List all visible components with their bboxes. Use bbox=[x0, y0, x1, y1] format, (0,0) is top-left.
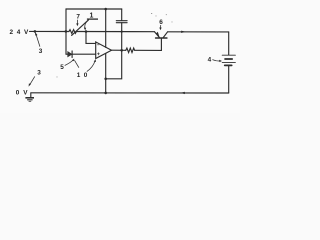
ground symbol hatching bbox=[25, 98, 34, 102]
leader 1 curved bbox=[85, 20, 89, 28]
svg-text:4: 4 bbox=[208, 57, 212, 64]
wire output segment bbox=[112, 49, 126, 51]
wire op-amp top power pin bbox=[105, 9, 107, 47]
arrowhead leader 3 bottom bbox=[29, 84, 32, 87]
leader 3 bottom bbox=[30, 76, 35, 85]
current arrow right wire bbox=[181, 31, 185, 33]
node rail/riser junction bbox=[65, 30, 68, 33]
op-amp plus mark bbox=[97, 53, 99, 55]
leader 1 of 10 to zener bbox=[75, 60, 79, 67]
transistor Q6 emitter diagonal bbox=[155, 32, 160, 38]
leader 6 bbox=[160, 25, 162, 28]
svg-text:0: 0 bbox=[84, 72, 88, 79]
svg-text:1: 1 bbox=[77, 72, 81, 79]
svg-text:V: V bbox=[23, 90, 28, 97]
label 1 underline bbox=[87, 18, 98, 20]
svg-text:7: 7 bbox=[76, 14, 80, 21]
transistor emitter arrowhead bbox=[156, 32, 160, 38]
ground stub bbox=[30, 93, 32, 98]
wire left riser/drop bbox=[65, 9, 67, 54]
wire output to base corner bbox=[135, 38, 162, 50]
wire battery top lead bbox=[228, 32, 230, 55]
battery B4 plates bbox=[222, 55, 235, 62]
leader arrows bbox=[30, 20, 221, 85]
node cap/rail crossing bbox=[121, 31, 123, 33]
zener diode D5 bbox=[68, 52, 72, 57]
wire 24V rail left segment bbox=[30, 30, 70, 32]
capacitor C top lead bbox=[121, 9, 123, 20]
op-amp minus mark bbox=[97, 44, 99, 46]
leader 3 top bbox=[36, 34, 40, 46]
node 24V terminal dot bbox=[34, 30, 37, 33]
resistor R on output zigzag bbox=[126, 48, 135, 52]
wire top rail bbox=[66, 8, 122, 10]
leader 10 curved bbox=[87, 61, 95, 72]
svg-text:6: 6 bbox=[159, 19, 163, 26]
arrowhead leader 1 bbox=[84, 28, 86, 31]
leader 4 bbox=[212, 60, 220, 61]
capacitor C bottom lead / feedback drop bbox=[106, 23, 122, 79]
op-amp U10 triangle bbox=[96, 42, 112, 59]
wire zener cathode to opamp bbox=[72, 53, 96, 55]
leader 7 bbox=[76, 20, 78, 24]
arrowhead leader 10 bbox=[94, 59, 96, 62]
current arrow bottom wire bbox=[181, 92, 185, 94]
wire 24V rail right segment bbox=[76, 31, 154, 33]
leader 5 curved bbox=[65, 60, 74, 66]
wire bottom 0V rail bbox=[31, 92, 229, 94]
wire op-amp bottom power pin bbox=[105, 54, 107, 93]
svg-text:V: V bbox=[24, 29, 29, 36]
node feedback tee bbox=[104, 78, 107, 81]
node bottom rail junction bbox=[104, 92, 107, 95]
wire inverting input branch bbox=[86, 32, 96, 44]
svg-text:3: 3 bbox=[39, 48, 43, 55]
svg-text:4: 4 bbox=[17, 29, 21, 36]
node pot wiper junction bbox=[85, 30, 88, 33]
arrowhead leader 4 bbox=[219, 60, 222, 62]
svg-text:3: 3 bbox=[37, 69, 41, 76]
transistor Q6 base bar bbox=[156, 37, 167, 39]
potentiometer arrow bbox=[72, 20, 89, 36]
arrowhead leader 5 bbox=[72, 59, 74, 62]
node top wire / opamp pin junction bbox=[104, 8, 107, 11]
transistor Q6 collector diagonal bbox=[163, 32, 167, 38]
potentiometer R7 zigzag bbox=[69, 30, 76, 34]
arrowhead leader 7 bbox=[76, 23, 78, 26]
wire battery bottom lead bbox=[228, 65, 230, 93]
svg-text:5: 5 bbox=[60, 64, 64, 71]
svg-text:0: 0 bbox=[16, 90, 20, 97]
arrowhead leader 3 top bbox=[35, 32, 38, 36]
wire riser to zener anode bbox=[66, 53, 68, 55]
arrowhead leader 6 bbox=[159, 28, 161, 31]
capacitor C plates bbox=[116, 21, 127, 23]
svg-text:2: 2 bbox=[10, 29, 14, 36]
node output junction bbox=[120, 49, 123, 52]
wire collector to battery bbox=[168, 31, 229, 33]
